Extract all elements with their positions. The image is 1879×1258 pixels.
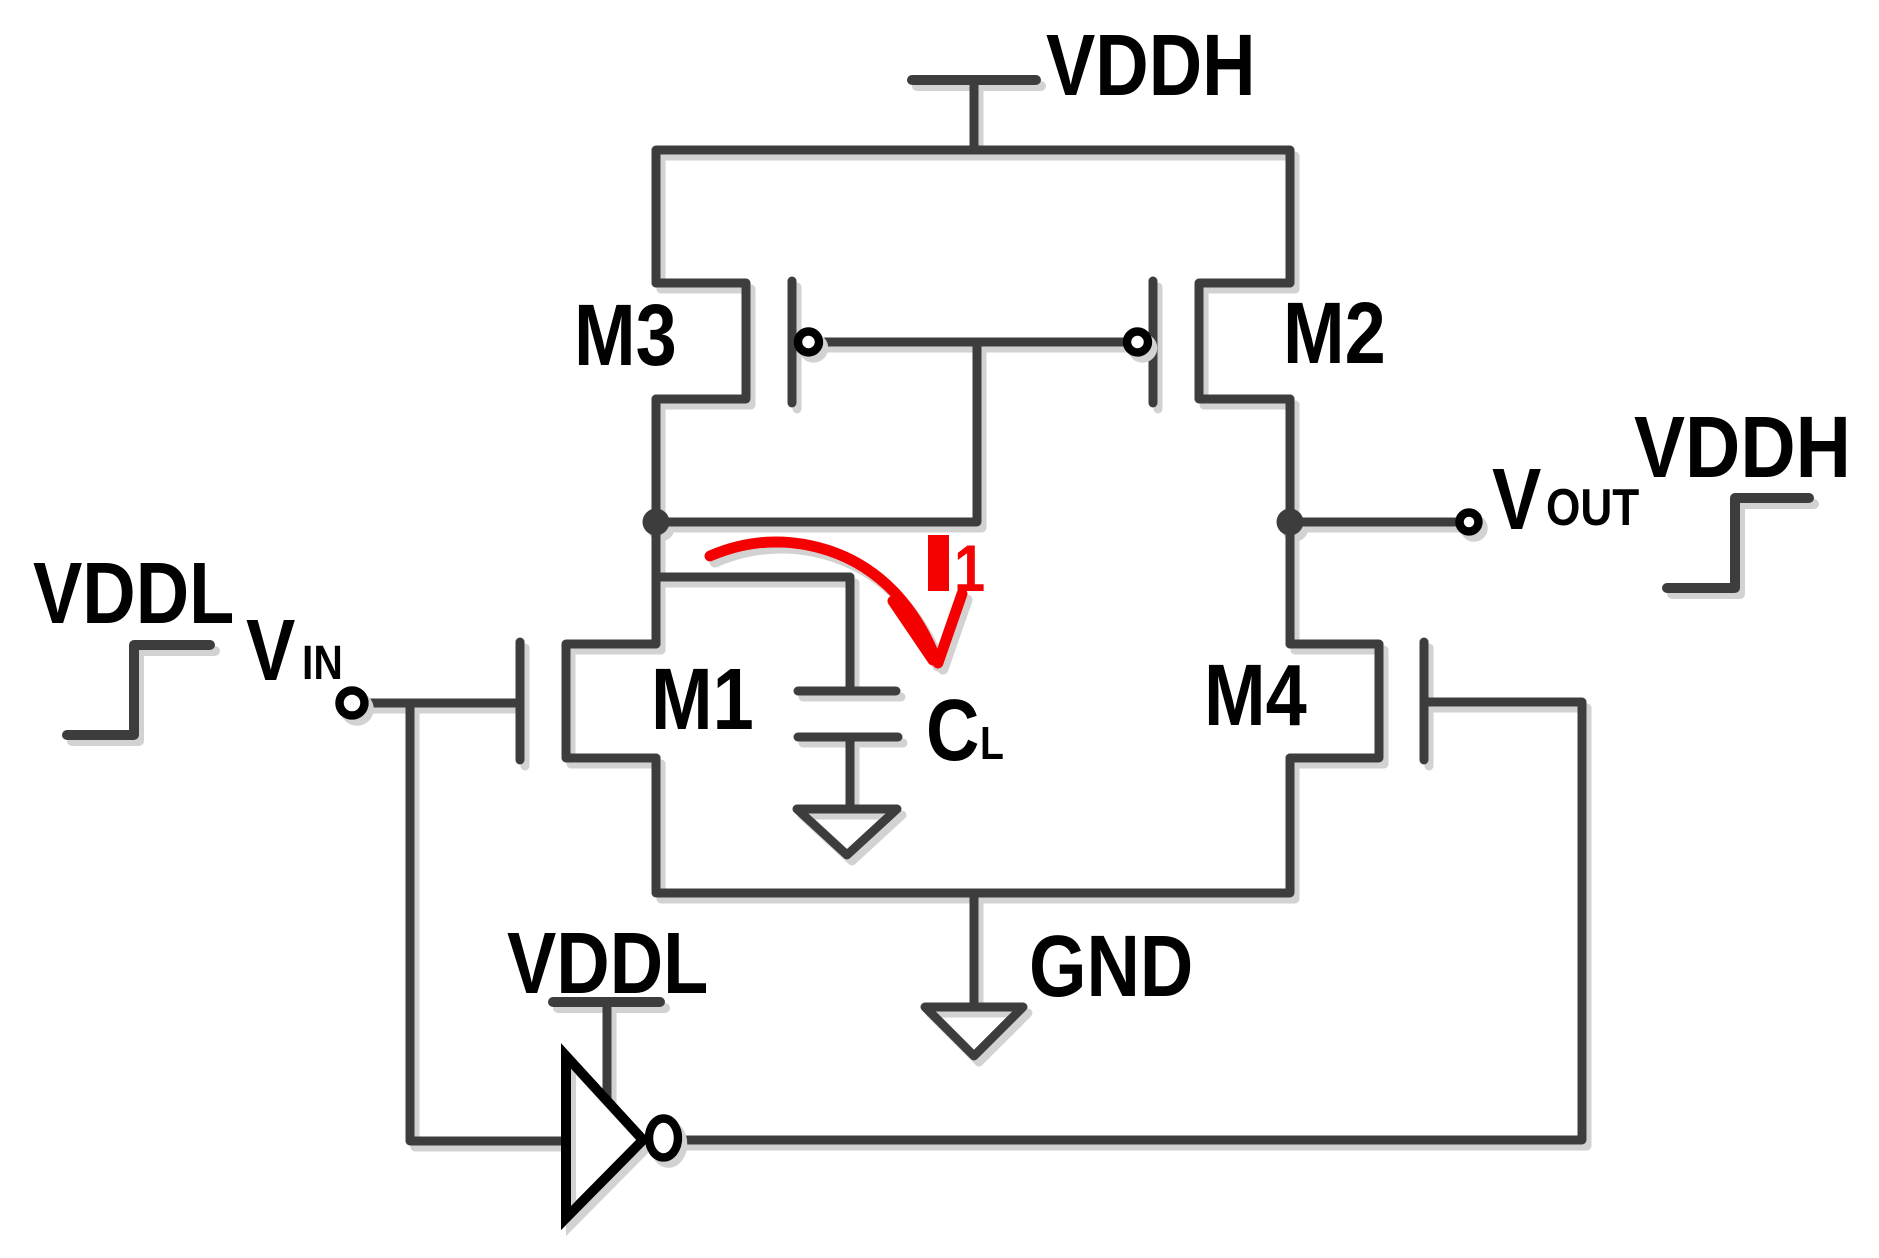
terminal VOUT — [1460, 513, 1479, 532]
wire gate rail M3-M2 — [823, 338, 1123, 347]
svg-text:L: L — [980, 718, 1004, 770]
wire gate cross link to node A — [656, 342, 977, 522]
inverter U1 bubble — [649, 1119, 678, 1158]
wire VDDL to inverter — [603, 1002, 612, 1098]
wire M4 gate to inverter output — [680, 702, 1582, 1140]
transistor M4 gate bar — [1420, 642, 1429, 760]
svg-text:VDDH: VDDH — [1634, 399, 1851, 496]
svg-text:VDDL: VDDL — [33, 545, 234, 642]
terminal VIN — [340, 691, 365, 716]
wire M2 drain to M4 drain — [1286, 399, 1295, 644]
transistor M2 gate bar — [1149, 281, 1158, 403]
svg-text:VDDL: VDDL — [507, 915, 708, 1012]
svg-text:1: 1 — [954, 532, 985, 605]
label I1 — [928, 535, 949, 591]
node A dot — [643, 509, 670, 536]
transistor M4 body — [1290, 644, 1379, 758]
wire CL branch — [656, 577, 850, 687]
wire VDDH stub — [970, 80, 979, 150]
wire GND stub — [970, 893, 979, 1004]
current arrow I1 left barb — [893, 601, 933, 660]
svg-text:VDDH: VDDH — [1046, 17, 1255, 114]
inverter U1 triangle — [566, 1056, 643, 1218]
capacitor CL top plate — [798, 687, 896, 696]
transistor M2 body — [1199, 283, 1290, 399]
power symbol VDDH bar — [912, 75, 1036, 85]
svg-text:M1: M1 — [651, 651, 754, 748]
ground GND — [925, 1007, 1023, 1056]
svg-text:M2: M2 — [1283, 285, 1386, 382]
capacitor CL bottom plate — [798, 733, 898, 742]
svg-text:M3: M3 — [574, 287, 677, 384]
transistor M1 gate bar — [516, 642, 525, 760]
transistor M1 body — [566, 644, 656, 758]
waveform step VDDH — [1667, 498, 1809, 588]
M3 gate bubble — [798, 332, 819, 353]
transistor M3 gate bar — [788, 281, 797, 403]
node B dot — [1277, 509, 1304, 536]
wire VOUT lead — [1290, 518, 1456, 527]
svg-text:M4: M4 — [1204, 647, 1307, 744]
transistor M3 body — [656, 283, 746, 399]
wire CL to ground — [846, 741, 855, 806]
current arrow I1 right barb — [938, 594, 962, 663]
waveform step VDDL — [67, 645, 210, 735]
ground under CL — [797, 809, 897, 855]
wire VIN to inverter input — [410, 703, 566, 1141]
wire M3 drain to M1 drain — [652, 399, 661, 644]
svg-text:C: C — [926, 682, 979, 779]
wire top VDDH rail — [656, 150, 1290, 283]
svg-text:GND: GND — [1029, 918, 1193, 1015]
power symbol VDDL bar — [553, 997, 660, 1007]
M2 gate bubble — [1127, 332, 1148, 353]
wire bottom rail M1 M4 sources — [656, 758, 1290, 893]
current arrow I1 curve — [710, 542, 935, 657]
svg-text:OUT: OUT — [1546, 479, 1639, 537]
wire VIN to M1 gate — [368, 699, 520, 708]
svg-text:V: V — [1492, 451, 1541, 548]
svg-text:V: V — [246, 602, 295, 699]
svg-text:IN: IN — [302, 637, 343, 690]
